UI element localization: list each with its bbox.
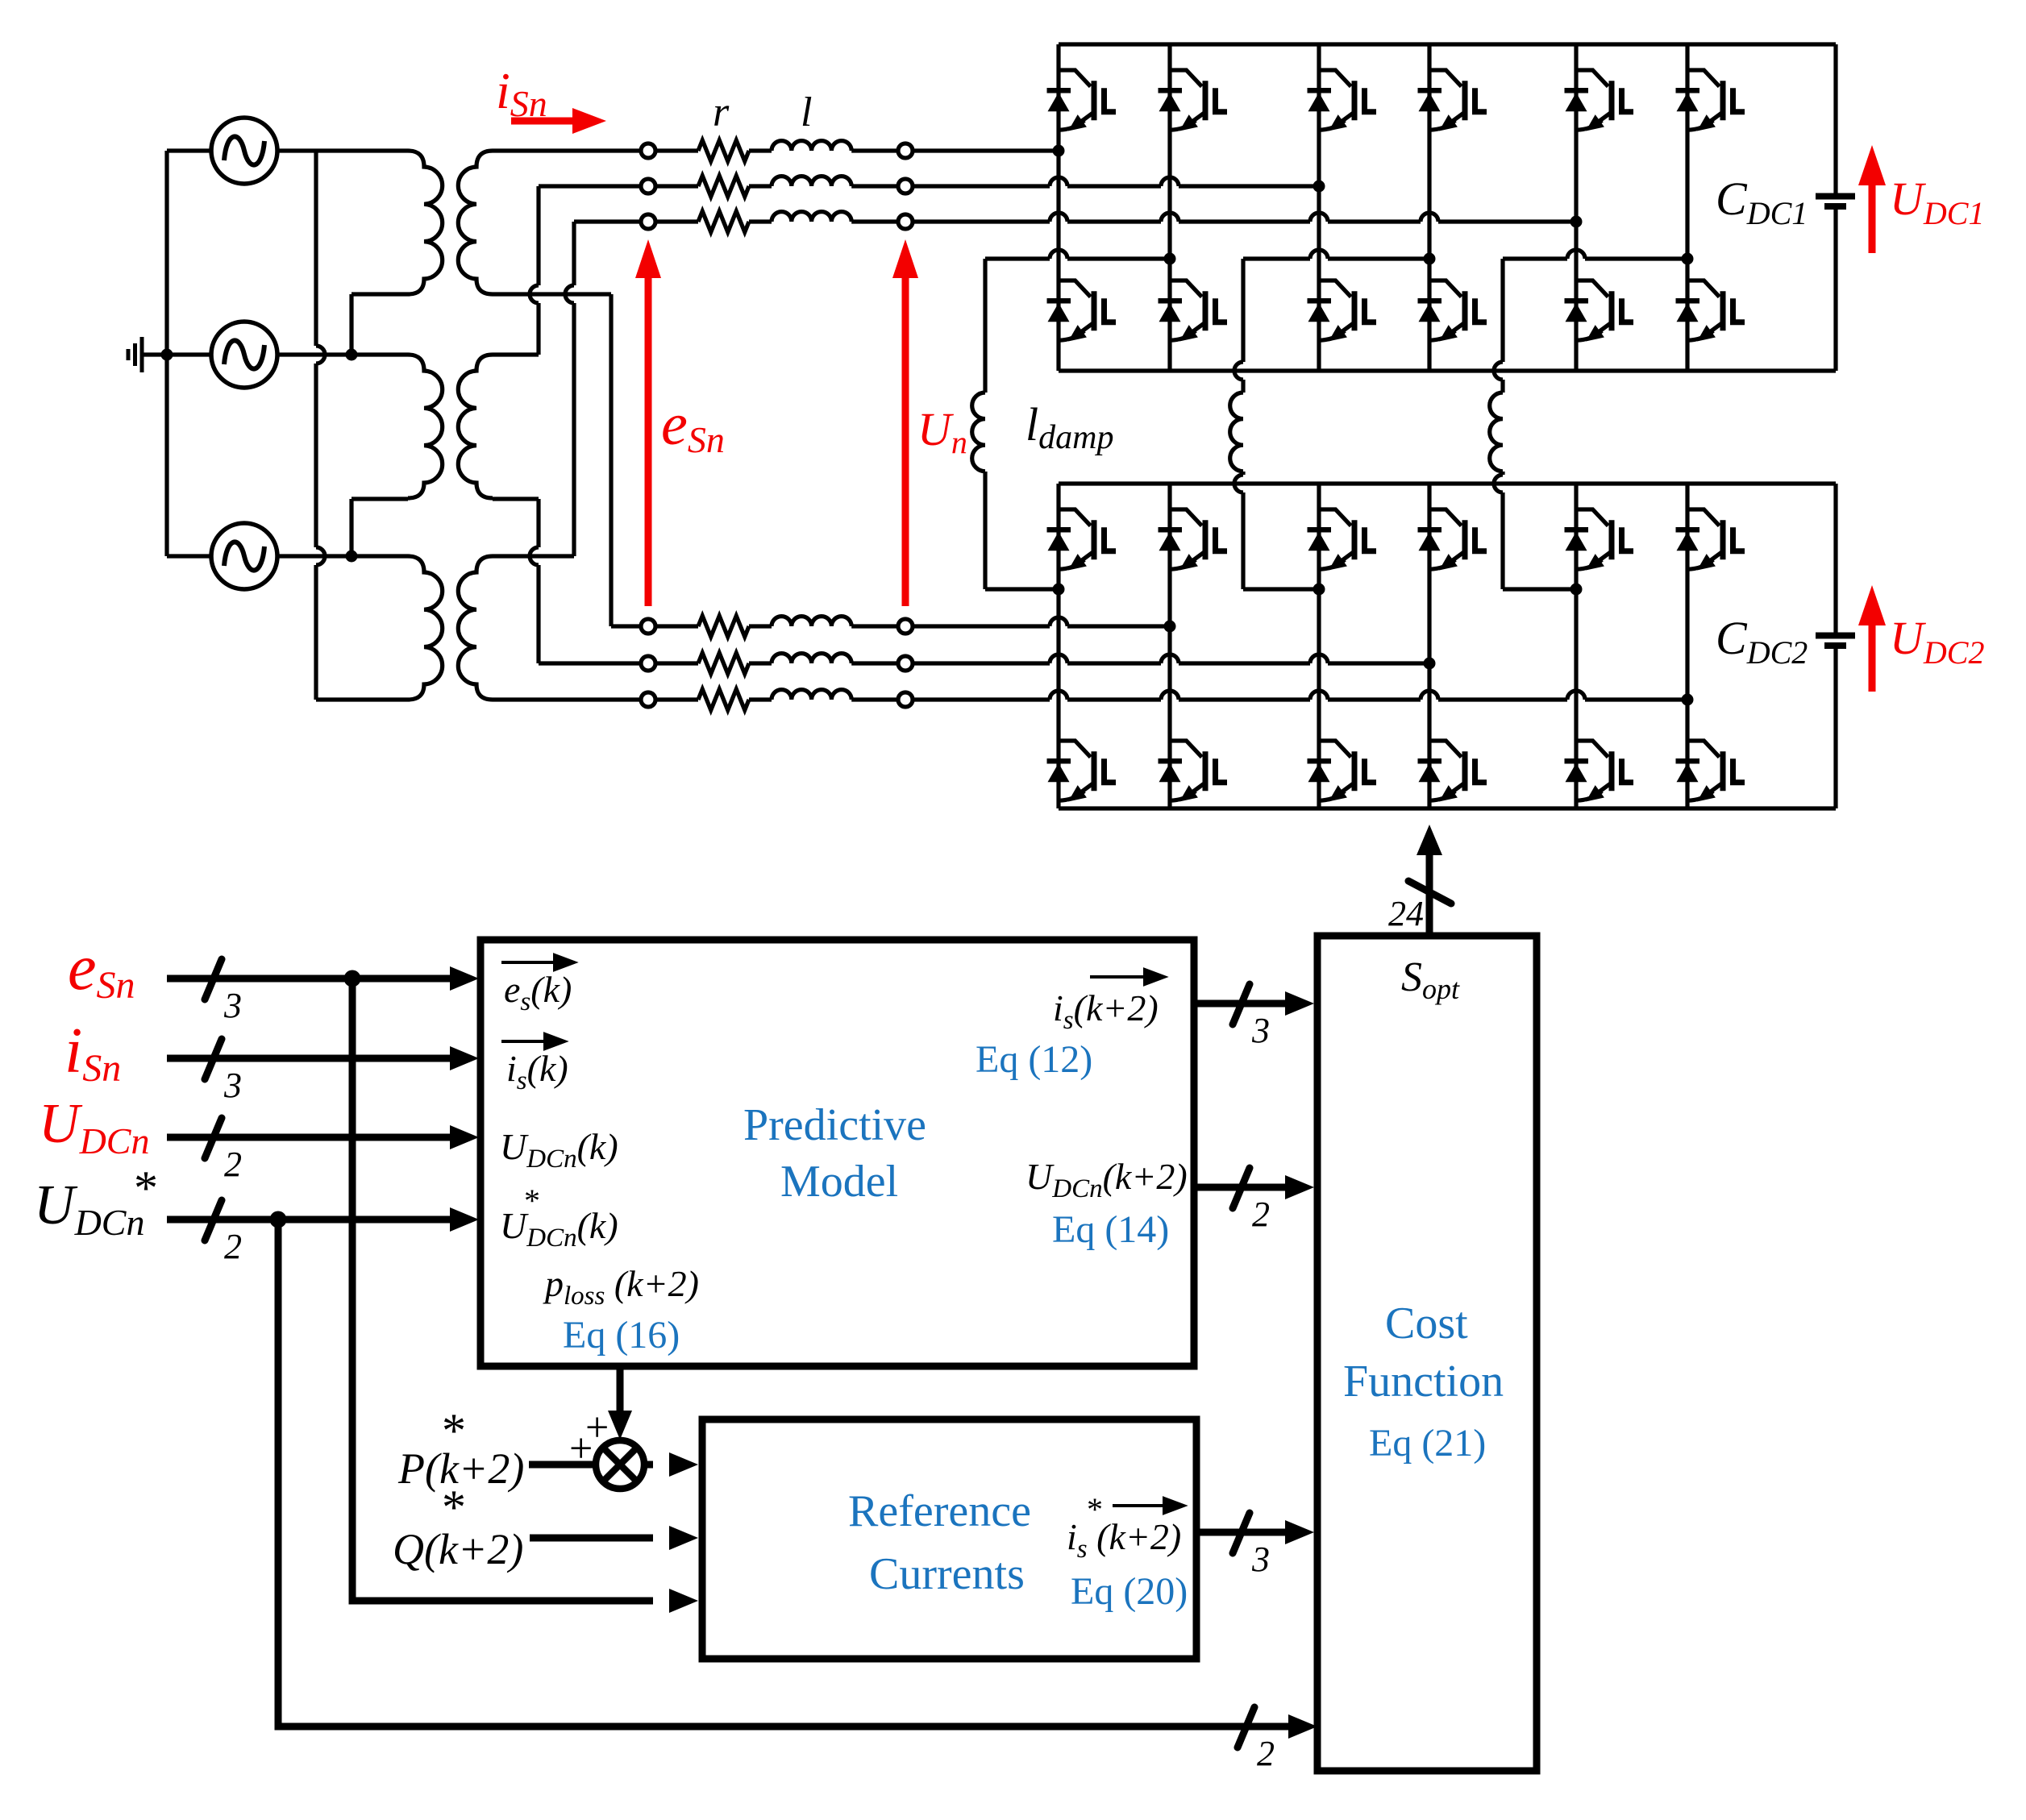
- wire summer to Reference Currents: [644, 1461, 653, 1469]
- wire source1 to primary T1: [277, 148, 408, 152]
- node lower leg6 phase c: [1682, 694, 1694, 706]
- wire primary T2 bottom to node3: [352, 499, 408, 556]
- arrow e_Sn (red): [635, 239, 661, 606]
- ground: [128, 337, 142, 372]
- wire secondary T1 bottom lead to lower row (corner x=758): [493, 294, 641, 626]
- transistor S14: [1047, 741, 1117, 800]
- arrowhead RefCur third input: [669, 1589, 698, 1613]
- wire source2 to primary T2: [277, 352, 408, 356]
- arrowhead S_opt: [1417, 825, 1442, 855]
- transistor S62: [1676, 280, 1745, 340]
- node primary1-bottom/line2: [346, 349, 358, 361]
- capacitor C_DC2: [1816, 633, 1855, 639]
- arrowhead CostFun bottom input: [1288, 1714, 1317, 1739]
- box Reference Currents: [702, 1419, 1196, 1659]
- svg-text:3: 3: [1251, 1540, 1270, 1579]
- slash e_Sn: [205, 959, 222, 999]
- node bus/ground: [161, 349, 173, 361]
- capacitor C_DC1: [1816, 193, 1855, 200]
- node leg5 phase c: [1570, 216, 1583, 228]
- wire input U_DCn: [167, 1134, 456, 1141]
- wire Predictive Model to Cost Function (is k+2): [1194, 1000, 1295, 1008]
- transformer T2 primary winding: [408, 355, 443, 498]
- wire lower leg 5: [1574, 484, 1578, 808]
- junction dot e_Sn branch: [344, 970, 361, 987]
- transistor S44: [1418, 741, 1487, 800]
- wire upper leg 2: [1167, 44, 1171, 371]
- transistor S42: [1418, 280, 1487, 340]
- transistor S34: [1308, 741, 1377, 800]
- svg-text:Predictive: Predictive: [743, 1100, 926, 1150]
- wire upper line c3 left: [574, 219, 641, 223]
- svg-text:Function: Function: [1343, 1357, 1504, 1407]
- transformer T1 primary winding: [408, 151, 443, 294]
- node lower leg5 damp3: [1570, 584, 1583, 596]
- arrowhead p_loss down: [608, 1411, 632, 1440]
- arrowhead Q*: [669, 1526, 698, 1550]
- arrow U_n (red): [892, 239, 918, 606]
- wire Predictive Model to Cost Function (UDCn k+2): [1194, 1184, 1295, 1191]
- wire damp3 lower link to lower leg5 (hops bus): [1494, 472, 1576, 589]
- arrow i_Sn (red): [511, 108, 606, 134]
- slash is(k+2): [1233, 984, 1250, 1024]
- transistor S22: [1159, 280, 1228, 340]
- wire Reference Currents to Cost Function (is* k+2): [1196, 1529, 1295, 1536]
- resistor-inductor branch c upper: [641, 211, 913, 232]
- transistor S23: [1159, 509, 1228, 569]
- wire damp1 lower link to lower leg1: [985, 472, 1059, 589]
- arrowhead U*_DCn(k): [450, 1207, 479, 1232]
- wire secondary T3 bottom lead to lower line: [493, 697, 641, 701]
- svg-text:Currents: Currents: [869, 1549, 1025, 1599]
- wire upper DC+ bus: [1059, 42, 1836, 46]
- svg-text:Eq (20): Eq (20): [1071, 1570, 1188, 1613]
- node leg2 damp1: [1164, 253, 1176, 265]
- slash UDCn(k+2): [1233, 1168, 1250, 1208]
- svg-text:*: *: [134, 1161, 158, 1215]
- arrowhead summer out: [669, 1452, 698, 1477]
- node lower leg4 phase b: [1424, 658, 1436, 670]
- wire lower DC- bus: [1059, 806, 1836, 810]
- wire upper DC- bus: [1059, 368, 1836, 372]
- wire e_Sn branch down to Reference Currents: [352, 979, 653, 1601]
- node lower leg1 damp1: [1053, 584, 1065, 596]
- wire P* into summer: [529, 1461, 596, 1469]
- transformer T3 primary winding: [408, 556, 443, 700]
- wire damp1 top link to upper leg2 (hop leg1): [985, 250, 1170, 259]
- box Cost Function: [1317, 936, 1537, 1771]
- wire secondary T1 top lead to line a1: [493, 148, 641, 152]
- bus slashes: [205, 881, 1451, 1747]
- svg-text:is(k): is(k): [506, 1048, 568, 1095]
- arrowhead UDCn(k+2): [1285, 1175, 1314, 1199]
- wire bus corner to source3: [167, 554, 211, 558]
- svg-text:2: 2: [224, 1145, 242, 1184]
- wire damp2 lower link to lower leg3 (hops bus): [1234, 472, 1319, 589]
- transformer T3 secondary winding: [458, 556, 493, 700]
- transistor S31: [1308, 70, 1377, 130]
- arrowhead U_DCn(k): [450, 1125, 479, 1149]
- junction dot U*_DCn branch: [270, 1211, 287, 1228]
- transistor S51: [1565, 70, 1634, 130]
- wire secondary T2 top riser x=668 (hop over y=365): [493, 186, 539, 355]
- arrowheads block diagram: [450, 825, 1442, 1739]
- wire input i_Sn: [167, 1055, 456, 1062]
- wire source3 to primary T3: [277, 554, 408, 558]
- transistor S53: [1565, 509, 1634, 569]
- wire damp3 top link to upper leg6 (hop leg5): [1503, 250, 1687, 259]
- svg-text:*: *: [442, 1404, 466, 1457]
- arrow U_DC1 (red): [1858, 145, 1886, 253]
- transistor S61: [1676, 70, 1745, 130]
- wire upper line c3 to leg5 (hops legs1-4): [913, 213, 1576, 222]
- transistor S41: [1418, 70, 1487, 130]
- wire damp3 riser (hops buses): [1494, 259, 1503, 393]
- resistor-inductor branch a upper: [641, 140, 913, 161]
- wire input U*_DCn: [167, 1216, 456, 1224]
- wire primary T3 bottom lead to delta vertical: [316, 697, 408, 701]
- vector arrow es: [501, 955, 574, 970]
- wire upper leg 3: [1317, 44, 1321, 371]
- svg-text:+: +: [569, 1426, 593, 1472]
- transistor S12: [1047, 280, 1117, 340]
- node leg1 phase a: [1053, 145, 1065, 157]
- transformer T1 secondary winding: [458, 151, 493, 294]
- svg-text:Cost: Cost: [1385, 1299, 1468, 1348]
- slash is*(k+2): [1233, 1513, 1250, 1553]
- junction dots lower converter: [1053, 584, 1694, 706]
- wire upper leg 1: [1056, 44, 1060, 371]
- wire bus to source1: [167, 148, 211, 152]
- wire lower line b2 to lower leg4 (hops legs1-3): [913, 654, 1429, 663]
- resistor-inductor branch a lower: [641, 616, 913, 637]
- wire upper line b2 left: [539, 184, 641, 188]
- arrowhead i_s(k): [450, 1046, 479, 1070]
- wire upper line b2 to leg3 (hops legs1,2): [913, 177, 1319, 186]
- wire secondary T2 bottom riser x=668 (hop over y=690): [493, 499, 641, 663]
- junction dots transformer section: [161, 349, 358, 563]
- svg-text:*: *: [524, 1182, 540, 1219]
- wire ground to bus: [142, 352, 211, 356]
- slash U_DCn: [205, 1118, 222, 1158]
- wire U*_DCn branch down to Cost Function: [278, 1220, 1295, 1727]
- wire lower DC+ bus: [1059, 481, 1836, 485]
- svg-text:3: 3: [223, 1066, 242, 1105]
- wire damp1 riser: [983, 259, 987, 393]
- AC source V1: [211, 118, 277, 184]
- svg-text:Eq (12): Eq (12): [976, 1038, 1092, 1081]
- wire upper leg 5: [1574, 44, 1578, 371]
- transistor S11: [1047, 70, 1117, 130]
- svg-text:24: 24: [1388, 894, 1424, 933]
- resistor-inductor branch c lower: [641, 689, 913, 710]
- svg-text:l: l: [801, 89, 812, 135]
- wire delta vertical x=392 (hops lines 2,3): [316, 151, 325, 700]
- wire input e_Sn: [167, 975, 456, 983]
- summer circle: [596, 1440, 644, 1489]
- wire primary T1 bottom to node2: [352, 294, 408, 355]
- wire lower leg 3: [1317, 484, 1321, 808]
- transistor S32: [1308, 280, 1377, 340]
- wire lower leg 6: [1685, 484, 1689, 808]
- slash bottom 2: [1238, 1707, 1254, 1747]
- box Predictive Model: [480, 940, 1194, 1366]
- node lower leg3 damp2: [1313, 584, 1325, 596]
- svg-text:Model: Model: [780, 1157, 898, 1207]
- wire upper leg 4: [1427, 44, 1431, 371]
- wire upper DC right link: [1833, 44, 1837, 371]
- svg-text:*: *: [442, 1481, 466, 1534]
- wire left bus: [164, 151, 168, 556]
- wire upper line a1 to leg1: [913, 148, 1059, 152]
- svg-text:*: *: [1087, 1491, 1103, 1527]
- inductor l_damp 1: [972, 393, 985, 472]
- transistor S52: [1565, 280, 1634, 340]
- vector arrow is(k+2): [1090, 970, 1164, 984]
- wire damp2 top link to upper leg4 (hop leg3): [1243, 250, 1429, 259]
- transistor S63: [1676, 509, 1745, 569]
- junction dots upper converter: [1053, 145, 1694, 265]
- transistor S54: [1565, 741, 1634, 800]
- wire upper leg 6: [1685, 44, 1689, 371]
- inductor l_damp 3: [1490, 393, 1503, 472]
- svg-text:r: r: [713, 89, 730, 135]
- svg-text:es(k): es(k): [504, 969, 572, 1016]
- resistor-inductor branch b lower: [641, 653, 913, 674]
- transistor S64: [1676, 741, 1745, 800]
- wire Q* into Reference Currents: [530, 1535, 653, 1542]
- wire lower leg 1: [1056, 484, 1060, 808]
- node lower leg2 phase a: [1164, 621, 1176, 633]
- wire lower line a1 to lower leg2 (hop leg1): [913, 617, 1170, 626]
- vector arrow is: [501, 1034, 564, 1049]
- transistor S33: [1308, 509, 1377, 569]
- svg-text:2: 2: [224, 1227, 242, 1266]
- svg-text:Eq (14): Eq (14): [1052, 1208, 1169, 1251]
- slash S_opt 24: [1408, 881, 1451, 904]
- transistor S43: [1418, 509, 1487, 569]
- AC source V2: [211, 322, 277, 388]
- wire p_loss drop to summer: [617, 1366, 624, 1413]
- wire S_opt up: [1426, 845, 1433, 936]
- transistor S13: [1047, 509, 1117, 569]
- arrowhead is(k+2): [1285, 991, 1314, 1016]
- svg-text:2: 2: [1257, 1734, 1275, 1773]
- wire lower DC right link: [1833, 484, 1837, 808]
- svg-text:3: 3: [223, 986, 242, 1025]
- node leg6 damp3: [1682, 253, 1694, 265]
- svg-text:Eq (21): Eq (21): [1369, 1422, 1486, 1465]
- svg-text:Reference: Reference: [848, 1486, 1031, 1536]
- arrowhead is*(k+2): [1285, 1520, 1314, 1544]
- node leg4 damp2: [1424, 253, 1436, 265]
- node leg3 phase b: [1313, 181, 1325, 193]
- arrowhead e_s(k): [450, 966, 479, 991]
- inductor l_damp 2: [1230, 393, 1243, 472]
- arrow U_DC2 (red): [1858, 585, 1886, 692]
- AC source V3: [211, 523, 277, 589]
- wire damp2 riser (hops buses): [1234, 259, 1243, 393]
- resistor-inductor branch b upper: [641, 176, 913, 197]
- transformer T2 secondary winding: [458, 355, 493, 498]
- svg-text:Eq (16): Eq (16): [563, 1314, 680, 1357]
- svg-text:3: 3: [1251, 1011, 1270, 1050]
- svg-text:UDCn(k+2): UDCn(k+2): [1025, 1156, 1188, 1203]
- vector arrow is*: [1113, 1498, 1184, 1513]
- wire lower line c3 to lower leg6 (hops legs1-5): [913, 691, 1687, 700]
- slash U*_DCn: [205, 1200, 222, 1240]
- wire lower leg 2: [1167, 484, 1171, 808]
- transistor S24: [1159, 741, 1228, 800]
- wire lower leg 4: [1427, 484, 1431, 808]
- slash i_Sn: [205, 1039, 222, 1079]
- node primary2-bottom/line3: [346, 551, 358, 563]
- svg-text:2: 2: [1252, 1195, 1270, 1234]
- wire secondary T3 top riser x=712 (hop over y=365): [493, 222, 574, 556]
- transistor S21: [1159, 70, 1228, 130]
